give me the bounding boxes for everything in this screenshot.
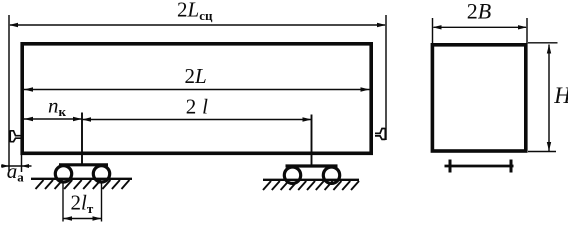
wire: extension line 2B left [432,18,434,44]
svg-text:H: H [553,83,568,108]
svg-text:2l: 2l [186,95,208,119]
wire: extension line H bottom [528,151,556,153]
left bogie frame [59,163,108,166]
right coupler [375,128,385,140]
dimension line 2B [434,26,527,28]
svg-text:2L: 2L [185,64,207,88]
svg-text:2lт: 2lт [71,191,94,217]
car body rectangle [22,44,371,154]
wire: extension line left (coupler face line, 2Lсц) [8,15,10,171]
wire: extension line 2lт left [62,184,64,222]
wire: extension line H top [528,42,558,44]
dimension line aа [1,165,32,167]
rail line left [31,178,132,180]
left coupler [10,130,20,142]
wire: extension line right (coupler face line, 2Lсц) [385,15,387,140]
node: bogie centerline left [81,113,83,166]
right wheel 2 [323,167,339,183]
end view box [432,45,525,151]
rail line right [263,179,359,181]
gauge tick left [449,160,452,173]
dimension line 2Lсц [10,24,385,26]
node: bogie centerline right [311,115,313,167]
ground hatching right [263,181,359,190]
dimension line 2lт [63,218,102,220]
wire: extension line 2lт right [101,184,103,222]
svg-text:2B: 2B [467,0,491,24]
right wheel 1 [284,167,300,183]
svg-text:nк: nк [48,94,67,120]
wire: extension of body corner for aа [21,155,23,172]
left wheel 1 [55,166,71,182]
dimension line 2L [24,89,370,91]
wire: extension line 2B right [526,18,528,44]
gauge tick right [510,160,513,173]
svg-text:2Lсц: 2Lсц [177,0,213,23]
left wheel 2 [93,166,109,182]
ground hatching left [36,180,130,189]
dimension line H [548,45,550,152]
track gauge bar [445,165,514,168]
right bogie frame [286,164,338,167]
dimension line nк [24,118,82,120]
dimension line 2l [82,119,312,121]
